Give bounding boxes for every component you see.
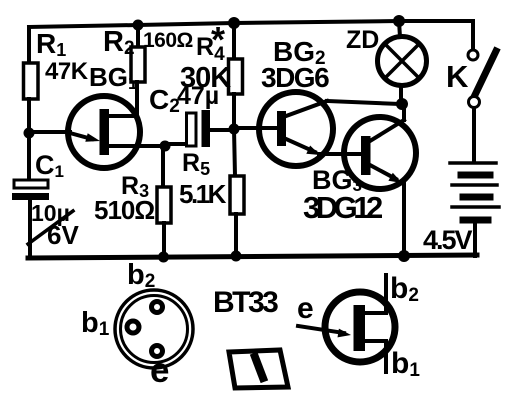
wire lamp bottom to node D	[399, 86, 403, 104]
junction R4 top rail	[228, 17, 240, 29]
wire R1 bottom to node A	[27, 99, 31, 181]
wire BG2 emitter to BG3 base	[319, 152, 361, 156]
junction R2 at top rail	[133, 20, 144, 31]
resistor R2	[131, 47, 145, 82]
label R4 with asterisk	[196, 19, 225, 65]
junction lamp at top rail	[393, 15, 405, 27]
wire left vertical R1 top	[27, 27, 31, 64]
wire C2 to node C	[210, 128, 234, 132]
wire R4 top	[232, 23, 236, 59]
wire BG2 collector to node D	[327, 101, 401, 104]
switch K	[468, 50, 496, 108]
resistor R4	[229, 59, 243, 94]
svg-text:30K: 30K	[180, 62, 231, 94]
svg-text:4.5V: 4.5V	[423, 225, 473, 255]
wire BG3 emitter down to rail	[402, 184, 406, 256]
wire R2 top	[136, 25, 140, 48]
wire top rail right corner down to switch	[471, 21, 475, 50]
wire R3 bottom to rail	[162, 223, 166, 257]
svg-text:*: *	[211, 19, 225, 60]
svg-text:5.1K: 5.1K	[179, 179, 227, 209]
resistor R3	[157, 187, 171, 223]
capacitor C1	[12, 180, 49, 200]
svg-text:K: K	[446, 59, 469, 94]
wire lamp top	[399, 21, 400, 37]
wire BG3 collector up to node D	[402, 104, 406, 120]
wire R5 bottom to rail	[234, 214, 238, 257]
svg-text:510Ω: 510Ω	[94, 195, 154, 225]
wire R4 bottom to node C	[232, 94, 236, 129]
resistor R1	[24, 63, 39, 99]
svg-text:e: e	[297, 292, 314, 325]
node B junction BG1 b1 / R3 / C2	[160, 141, 171, 152]
transistor BG2	[259, 92, 333, 166]
junction R5 at bottom rail	[231, 251, 242, 262]
junction R3 at bottom rail	[158, 252, 169, 263]
resistor R5	[230, 176, 244, 214]
package outline BT33 bottom view	[115, 290, 193, 368]
svg-text:BT33: BT33	[213, 286, 278, 319]
svg-text:47K: 47K	[45, 58, 89, 85]
wire battery to bottom rail	[473, 222, 477, 256]
wire bottom rail	[28, 255, 477, 258]
junction BG3 emitter at bottom rail	[398, 250, 410, 262]
lamp ZD	[378, 37, 427, 86]
svg-text:3DG12: 3DG12	[303, 190, 382, 225]
package side view parallelogram	[229, 350, 288, 388]
transistor BG1 (UJT)	[68, 96, 165, 168]
wire node C to R5	[234, 129, 235, 176]
svg-text:160Ω: 160Ω	[143, 29, 193, 52]
wire node B to C2	[163, 142, 187, 146]
transistor BG3	[344, 117, 416, 189]
wire R2 bottom to BG1 b2	[135, 82, 139, 116]
node A junction R1/C1/emitter	[24, 128, 35, 139]
wire top rail	[29, 21, 473, 27]
svg-text:ZD: ZD	[346, 26, 379, 54]
wire BG1 emitter from node A	[29, 130, 70, 134]
symbol BT33 UJT	[298, 275, 395, 372]
node C junction C2/R4/R5/BG2 base	[229, 124, 240, 135]
battery B1 4.5V	[450, 163, 499, 220]
wire C1 bottom to bottom rail	[28, 200, 32, 257]
svg-text:6V: 6V	[47, 220, 79, 250]
wire node B to R3	[161, 146, 165, 187]
slash 10u/6V	[28, 211, 73, 244]
capacitor C2	[187, 110, 211, 147]
svg-text:e: e	[150, 351, 169, 390]
wire switch to battery	[472, 108, 476, 162]
node D junction lamp/BG2/BG3 collectors	[396, 98, 408, 110]
wire node C to BG2 base	[234, 126, 277, 130]
svg-text:3DG6: 3DG6	[261, 62, 329, 93]
